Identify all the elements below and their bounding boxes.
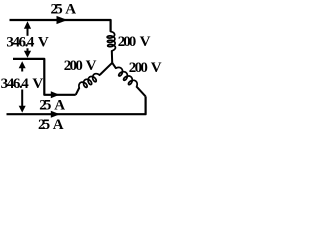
V1 up head <box>24 21 31 28</box>
svg-text:200: 200 <box>129 60 148 76</box>
voltage arrow V2 down shaft <box>21 90 23 108</box>
wire lead junction to L2 <box>100 63 112 75</box>
svg-text:V: V <box>151 60 162 76</box>
svg-text:200: 200 <box>64 58 83 74</box>
svg-text:346.4: 346.4 <box>1 76 30 92</box>
svg-text:A: A <box>65 2 76 18</box>
inductor L3 (right diagonal, 200 V) <box>116 67 137 86</box>
svg-text:V: V <box>86 58 97 74</box>
wire lead L1 bottom to junction <box>111 51 113 63</box>
svg-text:A: A <box>53 117 64 133</box>
wire line B middle <box>13 59 76 95</box>
svg-text:200: 200 <box>118 34 137 50</box>
voltage arrow V1 down shaft <box>27 48 29 52</box>
current arrow bottom 25A <box>51 111 60 118</box>
wire line C bottom <box>7 96 146 114</box>
svg-text:V: V <box>140 34 151 50</box>
svg-text:V: V <box>38 34 49 50</box>
wire lead L2 to middle wire <box>76 88 80 95</box>
svg-text:25: 25 <box>51 2 63 18</box>
inductor L1 (vertical, 200 V) <box>107 32 115 51</box>
svg-text:25: 25 <box>38 117 50 133</box>
svg-text:V: V <box>32 76 43 92</box>
current arrow top 25A <box>57 16 68 24</box>
wire lead L3 to bottom corner <box>136 86 145 96</box>
inductor L2 (left diagonal, 200 V) <box>79 74 100 88</box>
wire lead junction to L3 <box>112 63 116 68</box>
voltage arrow V2 up shaft <box>21 66 23 72</box>
wire line A top <box>10 20 111 32</box>
current arrow middle 25A <box>51 91 60 98</box>
svg-text:346.4: 346.4 <box>6 34 35 50</box>
svg-text:A: A <box>54 97 65 113</box>
svg-text:25: 25 <box>39 97 51 113</box>
V2 down head <box>19 106 26 113</box>
voltage arrow V1 up shaft <box>27 28 29 36</box>
V2 up head <box>19 61 26 68</box>
V1 down head <box>24 51 31 58</box>
